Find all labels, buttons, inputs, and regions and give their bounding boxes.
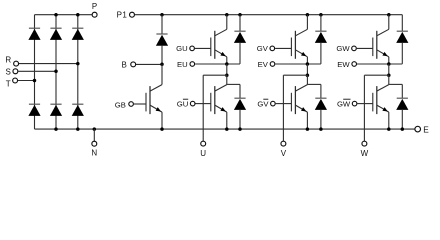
terminal EW — [352, 62, 357, 67]
terminal GV bar — [271, 101, 276, 106]
terminal GW bar — [352, 101, 357, 106]
wire W lower emitter — [388, 112, 390, 129]
diode DU1 (upper freewheel U) — [234, 31, 246, 43]
wire U lower collector column — [226, 75, 228, 84]
svg-text:N: N — [91, 149, 97, 158]
node bottom rail junction col2 — [54, 127, 58, 131]
diode D3 (rectifier upper leg 3) — [72, 28, 84, 40]
terminal E — [415, 126, 421, 132]
transistor QV2 lower (GV bar) — [291, 85, 307, 115]
diode DW1 (upper freewheel W) — [396, 31, 408, 43]
svg-text:T: T — [6, 79, 11, 88]
svg-text:GW: GW — [337, 99, 351, 108]
wire W lower collector column — [388, 75, 390, 84]
node U phase — [225, 73, 229, 77]
node W emitter junction — [387, 62, 391, 66]
svg-text:GV: GV — [257, 44, 269, 53]
wire U lower diode link — [227, 83, 240, 85]
node top rail junction V collector — [306, 13, 310, 17]
label GV bar — [257, 99, 269, 108]
node T junction — [33, 79, 37, 83]
wire U upper diode to emitter row — [239, 43, 241, 64]
terminal EV — [270, 62, 275, 67]
wire V upper emitter stub — [306, 57, 308, 64]
terminal GV — [270, 46, 275, 51]
node V lower diode junction — [319, 127, 323, 131]
wire U upper emitter stub — [226, 57, 228, 64]
node top rail junction U collector — [225, 13, 229, 17]
label GU bar — [177, 99, 189, 108]
node top rail junction U diode — [238, 13, 242, 17]
wire EU emitter row — [195, 63, 240, 65]
diode D1 (rectifier upper leg 1) — [28, 28, 40, 40]
diode D2 (rectifier upper leg 2) — [50, 28, 62, 40]
terminal GU — [190, 46, 195, 51]
svg-text:U: U — [200, 149, 206, 158]
node S junction — [54, 70, 58, 74]
wire rectifier leg 2 — [55, 15, 57, 129]
terminal GU bar — [190, 101, 195, 106]
terminal U — [201, 141, 206, 146]
terminal V — [281, 141, 286, 146]
diode D7 (brake) — [156, 34, 168, 46]
wire GB gate lead — [134, 103, 146, 105]
node top rail junction W collector — [387, 13, 391, 17]
wire brake column upper — [161, 15, 163, 35]
svg-text:W: W — [361, 149, 369, 158]
wire GV bar gate lead — [276, 103, 292, 105]
node R junction — [76, 62, 80, 66]
wire S input — [18, 70, 56, 72]
wire brake collector — [161, 64, 163, 84]
node V emitter junction — [306, 62, 310, 66]
wire N drop — [93, 129, 95, 141]
wire GV gate lead — [275, 47, 291, 49]
wire W lower diode to rail — [401, 110, 403, 129]
diode D6 (rectifier lower leg 3) — [72, 104, 84, 116]
svg-text:GU: GU — [177, 99, 189, 108]
node V phase — [306, 73, 310, 77]
diode DW2 (lower freewheel W) — [396, 98, 408, 110]
svg-text:EV: EV — [258, 60, 269, 69]
terminal S — [13, 69, 18, 74]
node top rail junction V diode — [319, 13, 323, 17]
transistor QW2 lower (GW bar) — [373, 85, 389, 115]
svg-text:GV: GV — [257, 99, 269, 108]
wire W upper emitter stub — [388, 57, 390, 64]
svg-text:S: S — [6, 68, 11, 77]
wire T input — [18, 80, 35, 82]
terminal EU — [190, 62, 195, 67]
wire inverter top rail — [135, 14, 403, 16]
svg-text:EU: EU — [177, 60, 188, 69]
wire U lower emitter — [226, 112, 228, 129]
wire W phase to terminal — [364, 74, 388, 76]
wire U phase to terminal — [203, 74, 227, 76]
wire V upper diode column — [320, 15, 322, 32]
svg-text:GB: GB — [115, 101, 126, 110]
node U emitter junction — [225, 62, 229, 66]
wire GW bar gate lead — [357, 103, 372, 105]
terminal W — [362, 141, 367, 146]
node top rail junction col3 — [76, 13, 80, 17]
wire V lower diode to rail — [320, 110, 322, 129]
wire W lower diode link — [389, 83, 403, 85]
svg-text:EW: EW — [337, 60, 350, 69]
svg-text:GW: GW — [336, 44, 350, 53]
node W lower diode junction — [401, 127, 405, 131]
node U lower diode junction — [238, 127, 242, 131]
wire rectifier leg 1 — [34, 15, 36, 129]
wire V phase to terminal — [283, 74, 307, 76]
node W phase — [387, 73, 391, 77]
terminal N — [92, 141, 97, 146]
node brake top junction — [160, 13, 164, 17]
wire V upper diode to emitter row — [320, 43, 322, 64]
node brake emitter junction — [160, 127, 164, 131]
node top rail junction col2 — [54, 13, 58, 17]
wire U upper collector column — [226, 15, 228, 30]
terminal T — [13, 78, 18, 83]
wire U phase link — [226, 64, 228, 75]
diode D4 (rectifier lower leg 1) — [28, 104, 40, 116]
transistor QV upper (GV) — [291, 29, 307, 59]
wire U lower diode to rail — [239, 110, 241, 129]
terminal P1 — [130, 12, 135, 17]
wire EV emitter row — [275, 63, 321, 65]
wire GW gate lead — [357, 47, 373, 49]
node B junction — [160, 63, 164, 67]
terminal GB — [129, 102, 134, 107]
node bottom rail junction col3 — [76, 127, 80, 131]
node V lower emitter junction — [306, 127, 310, 131]
wire W upper diode to emitter row — [401, 43, 403, 64]
wire V upper collector column — [306, 15, 308, 30]
wire V lower emitter — [306, 112, 308, 129]
wire R input — [19, 63, 78, 65]
svg-text:R: R — [5, 55, 11, 64]
transistor QU2 lower (GU bar) — [211, 85, 227, 115]
diode DV1 (upper freewheel V) — [315, 31, 327, 43]
terminal GW — [352, 46, 357, 51]
svg-text:V: V — [281, 149, 287, 158]
wire W upper collector column — [388, 15, 390, 30]
svg-text:GU: GU — [176, 44, 188, 53]
svg-text:P: P — [92, 2, 97, 11]
diode DU2 (lower freewheel U) — [234, 98, 246, 110]
wire GU gate lead — [195, 47, 211, 49]
terminal P — [92, 12, 97, 17]
wire B input — [136, 63, 162, 65]
wire brake emitter — [161, 112, 163, 129]
wire V lower diode link — [307, 83, 321, 85]
diode D5 (rectifier lower leg 2) — [50, 104, 62, 116]
wire rectifier leg 3 — [77, 15, 79, 129]
terminal B — [131, 62, 136, 67]
svg-text:P1: P1 — [117, 11, 128, 20]
wire W upper diode column — [401, 15, 403, 32]
svg-text:B: B — [121, 61, 126, 70]
node U lower emitter junction — [225, 127, 229, 131]
wire V lower collector column — [306, 75, 308, 84]
wire V phase link — [306, 64, 308, 75]
wire rectifier top rail — [35, 14, 92, 16]
transistor Q7 (brake IGBT) — [146, 85, 162, 115]
wire W phase link — [388, 64, 390, 75]
transistor QW upper (GW) — [373, 29, 389, 59]
terminal R — [14, 61, 19, 66]
wire U upper diode column — [239, 15, 241, 32]
wire brake diode to B node — [161, 46, 163, 65]
diode DV2 (lower freewheel V) — [315, 98, 327, 110]
transistor QU upper (GU) — [211, 29, 227, 59]
wire GU bar gate lead — [196, 103, 211, 105]
wire rectifier bottom rail — [35, 128, 415, 130]
label GW bar — [337, 99, 351, 108]
node N junction — [93, 127, 97, 131]
svg-text:E: E — [423, 125, 429, 135]
node W lower emitter junction — [387, 127, 391, 131]
wire EW emitter row — [357, 63, 402, 65]
